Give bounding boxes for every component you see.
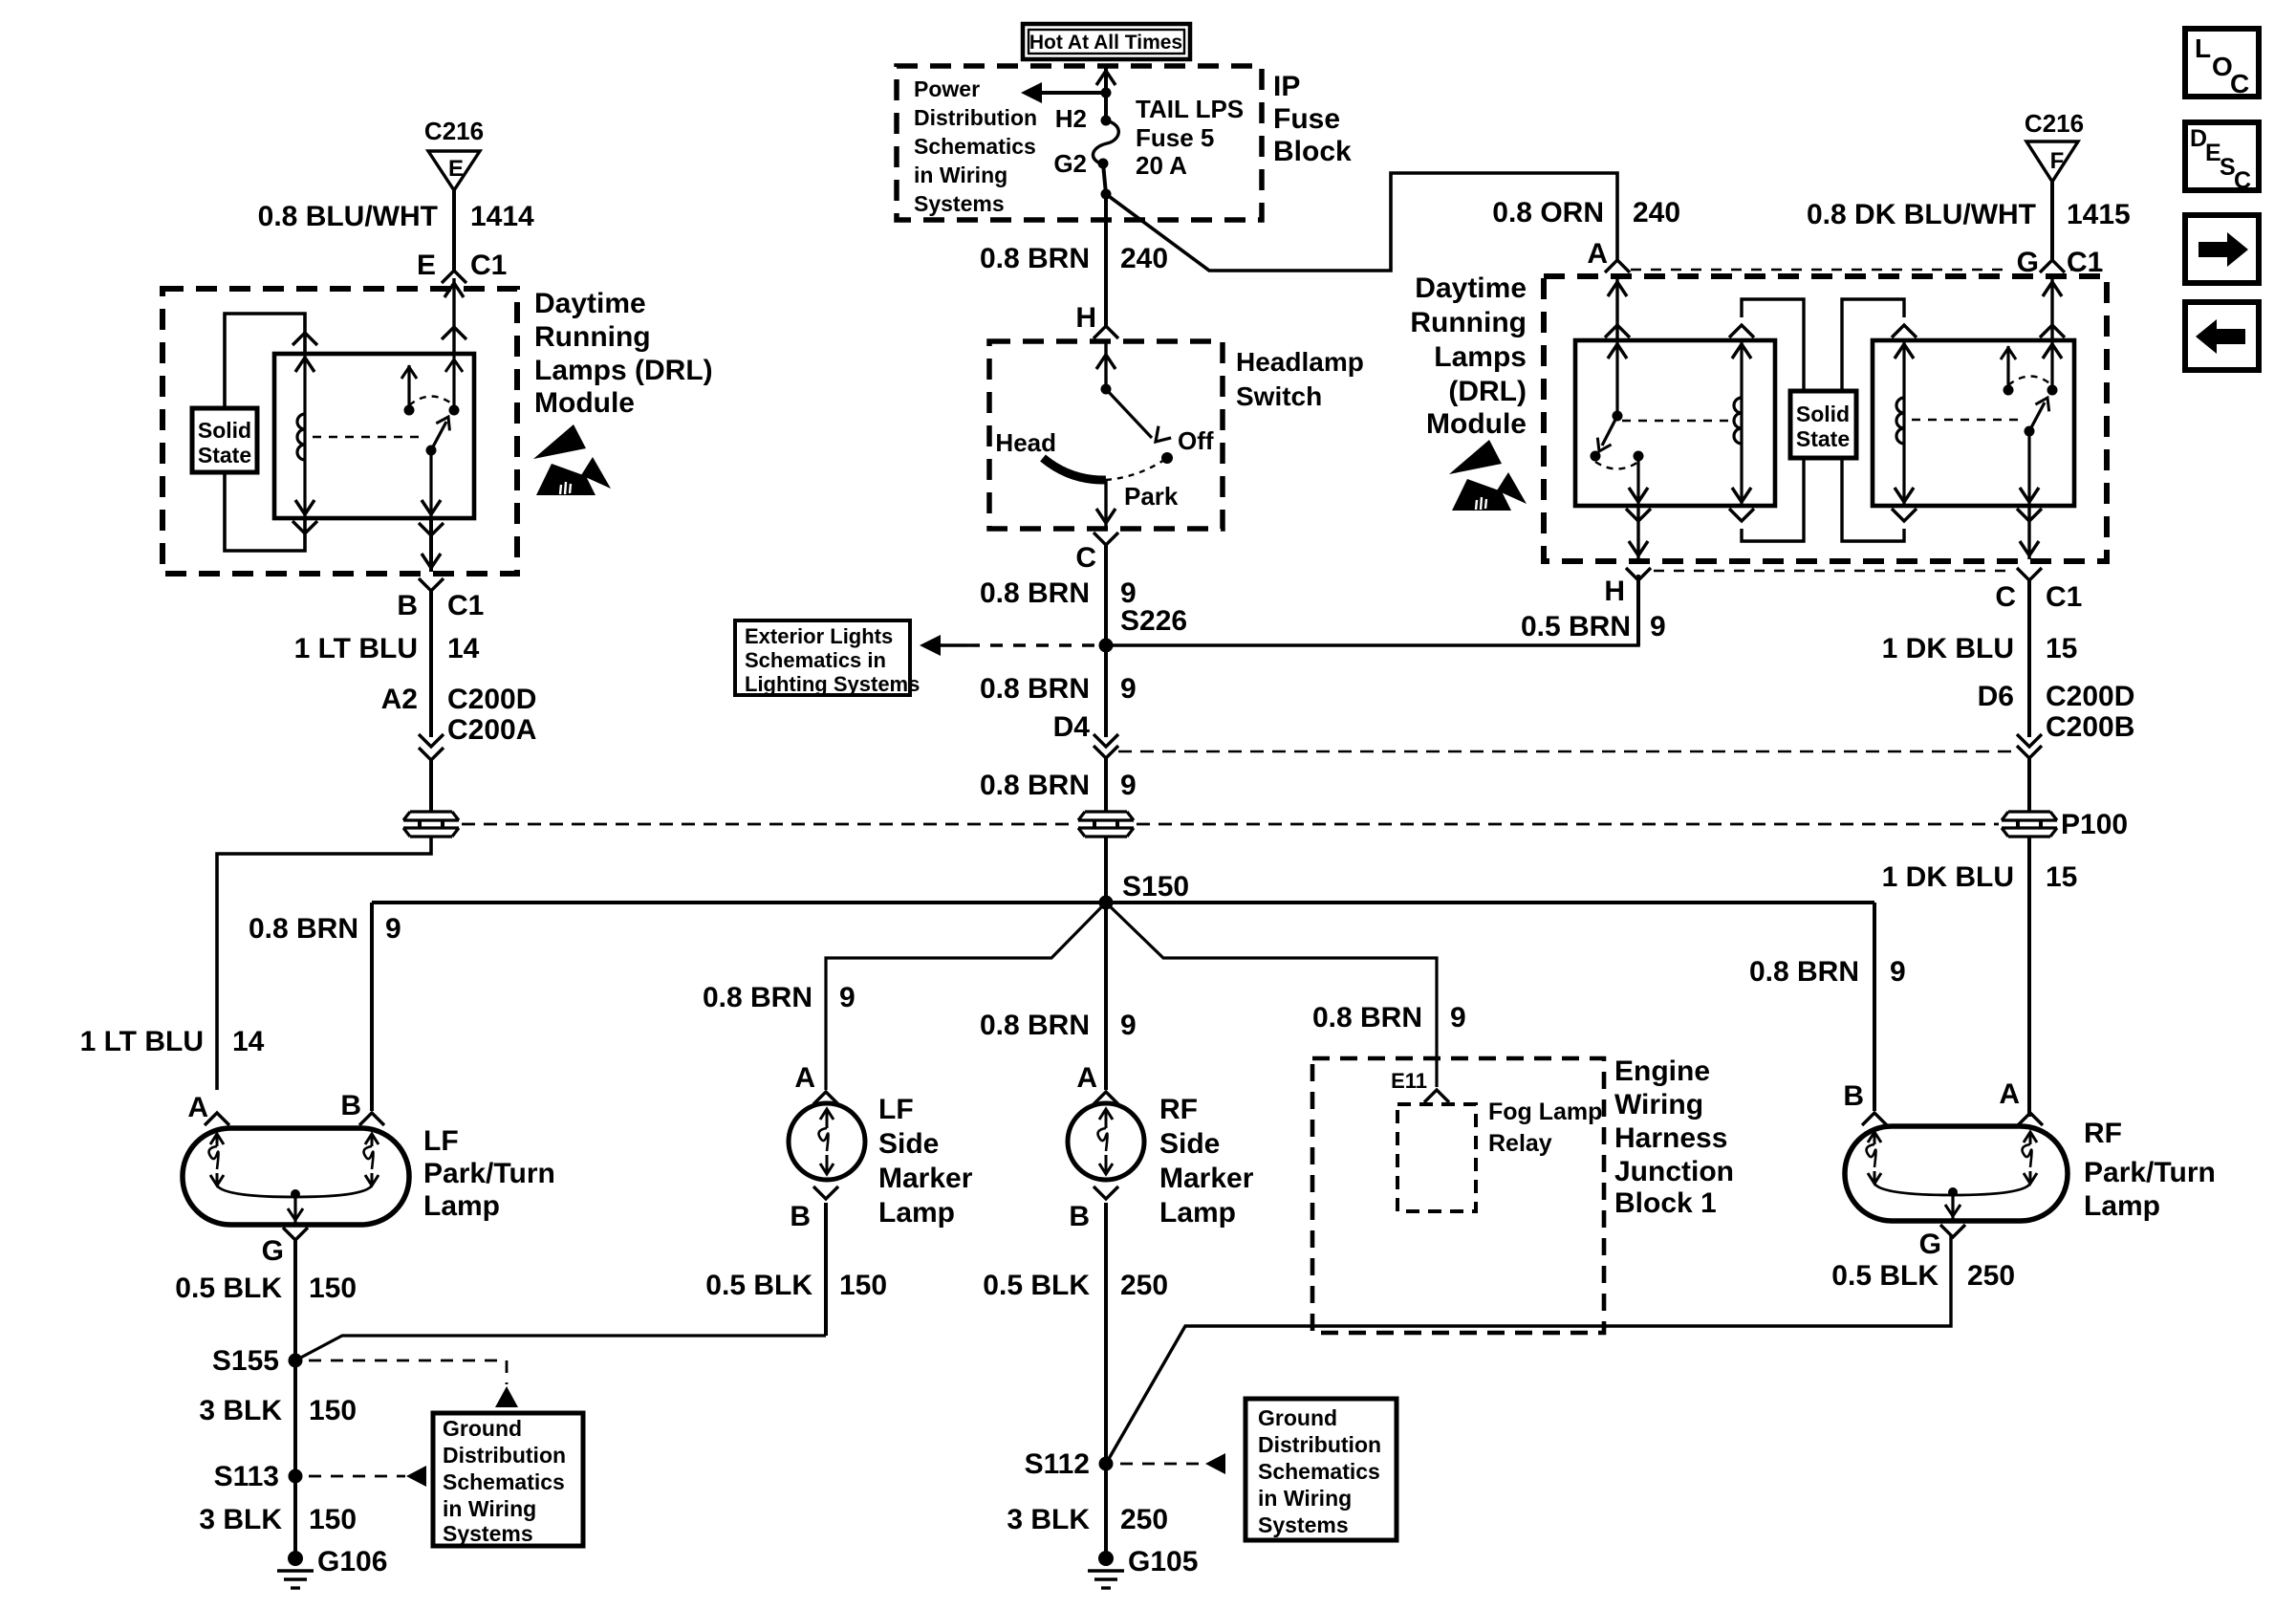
svg-text:D6: D6 (1978, 681, 2014, 712)
svg-text:Park/Turn: Park/Turn (2084, 1157, 2216, 1188)
svg-text:14: 14 (447, 633, 480, 664)
svg-text:Off: Off (1178, 426, 1214, 455)
svg-text:C: C (1075, 542, 1096, 574)
svg-text:B: B (1843, 1080, 1864, 1112)
svg-text:Fuse: Fuse (1273, 103, 1340, 135)
svg-text:Module: Module (534, 387, 635, 419)
svg-text:Lamp: Lamp (423, 1190, 500, 1222)
svg-text:Ground: Ground (443, 1416, 522, 1441)
svg-text:Systems: Systems (1258, 1512, 1349, 1537)
svg-text:0.8 ORN: 0.8 ORN (1492, 197, 1604, 228)
svg-text:State: State (198, 443, 251, 468)
svg-text:Headlamp: Headlamp (1236, 347, 1364, 377)
svg-text:in Wiring: in Wiring (1258, 1486, 1352, 1511)
svg-text:Power: Power (914, 76, 980, 101)
svg-text:S226: S226 (1120, 605, 1187, 637)
svg-text:Module: Module (1426, 408, 1527, 440)
svg-text:Side: Side (878, 1128, 939, 1160)
svg-text:State: State (1796, 426, 1850, 451)
svg-text:C200A: C200A (447, 714, 536, 746)
svg-text:Marker: Marker (1159, 1163, 1254, 1194)
svg-text:B: B (340, 1090, 361, 1121)
svg-text:Park/Turn: Park/Turn (423, 1158, 555, 1189)
svg-text:E: E (417, 250, 436, 281)
svg-text:Marker: Marker (878, 1163, 973, 1194)
svg-text:1 LT BLU: 1 LT BLU (294, 633, 418, 664)
svg-text:240: 240 (1633, 197, 1680, 228)
svg-text:G: G (1919, 1229, 1941, 1260)
svg-text:Junction: Junction (1614, 1156, 1734, 1187)
svg-text:9: 9 (839, 982, 856, 1013)
svg-text:1415: 1415 (2067, 199, 2131, 230)
svg-text:9: 9 (1120, 1010, 1137, 1041)
svg-text:Fuse 5: Fuse 5 (1136, 123, 1214, 152)
svg-text:Park: Park (1124, 482, 1179, 511)
svg-text:250: 250 (1967, 1260, 2015, 1292)
svg-text:G: G (262, 1235, 284, 1267)
svg-text:in Wiring: in Wiring (443, 1496, 536, 1521)
svg-text:Lamps: Lamps (1434, 341, 1527, 373)
svg-text:P100: P100 (2061, 809, 2128, 840)
svg-text:LF: LF (878, 1094, 914, 1125)
svg-text:0.5 BRN: 0.5 BRN (1521, 611, 1631, 642)
svg-text:0.5 BLK: 0.5 BLK (705, 1270, 812, 1301)
svg-text:Lamp: Lamp (1159, 1197, 1236, 1229)
svg-text:G2: G2 (1053, 149, 1087, 178)
svg-text:Head: Head (995, 428, 1056, 457)
svg-text:3 BLK: 3 BLK (199, 1395, 282, 1426)
svg-text:9: 9 (1120, 673, 1137, 705)
svg-text:0.8 BRN: 0.8 BRN (980, 673, 1090, 705)
svg-text:L: L (2195, 33, 2211, 63)
svg-text:14: 14 (232, 1026, 265, 1057)
svg-text:G105: G105 (1128, 1546, 1198, 1577)
svg-text:15: 15 (2046, 633, 2077, 664)
svg-text:TAIL LPS: TAIL LPS (1136, 95, 1244, 123)
svg-text:A: A (187, 1092, 208, 1123)
svg-text:1 DK BLU: 1 DK BLU (1882, 861, 2014, 893)
svg-text:LF: LF (423, 1125, 459, 1157)
svg-text:250: 250 (1120, 1270, 1168, 1301)
svg-text:0.8 BRN: 0.8 BRN (980, 770, 1090, 801)
svg-text:H: H (1604, 576, 1625, 607)
svg-text:Harness: Harness (1614, 1122, 1727, 1154)
svg-text:9: 9 (1650, 611, 1666, 642)
svg-text:F: F (2050, 148, 2065, 174)
svg-text:C: C (1995, 581, 2016, 613)
svg-text:9: 9 (1450, 1002, 1466, 1033)
svg-text:Systems: Systems (443, 1521, 533, 1546)
svg-text:Running: Running (1410, 307, 1527, 338)
svg-text:0.8 BRN: 0.8 BRN (980, 577, 1090, 609)
svg-text:Distribution: Distribution (443, 1443, 566, 1468)
svg-text:250: 250 (1120, 1504, 1168, 1535)
svg-text:0.8 BRN: 0.8 BRN (249, 913, 358, 945)
svg-text:150: 150 (309, 1395, 357, 1426)
svg-text:Solid: Solid (198, 418, 251, 443)
svg-text:Engine: Engine (1614, 1055, 1710, 1087)
svg-text:C1: C1 (447, 590, 484, 621)
svg-text:S113: S113 (214, 1461, 279, 1492)
svg-text:150: 150 (309, 1273, 357, 1304)
svg-text:C216: C216 (424, 117, 484, 145)
svg-text:C216: C216 (2025, 109, 2084, 138)
svg-text:Schematics in: Schematics in (745, 648, 886, 672)
svg-text:3 BLK: 3 BLK (199, 1504, 282, 1535)
svg-text:1 DK BLU: 1 DK BLU (1882, 633, 2014, 664)
svg-text:H2: H2 (1055, 104, 1087, 133)
svg-text:Side: Side (1159, 1128, 1220, 1160)
svg-text:0.8 BRN: 0.8 BRN (703, 982, 812, 1013)
svg-text:Solid: Solid (1796, 402, 1850, 426)
svg-text:Hot At All Times: Hot At All Times (1029, 32, 1182, 54)
svg-text:Switch: Switch (1236, 381, 1322, 411)
svg-text:0.5 BLK: 0.5 BLK (175, 1273, 282, 1304)
svg-text:Lighting Systems: Lighting Systems (745, 672, 920, 696)
svg-text:Fog Lamp: Fog Lamp (1488, 1099, 1602, 1125)
svg-text:1 LT BLU: 1 LT BLU (80, 1026, 204, 1057)
svg-text:C1: C1 (2046, 581, 2082, 613)
svg-text:0.8 BRN: 0.8 BRN (1312, 1002, 1422, 1033)
svg-text:Daytime: Daytime (534, 288, 646, 319)
svg-text:C1: C1 (470, 250, 507, 281)
svg-text:A: A (1587, 238, 1608, 270)
svg-text:S155: S155 (212, 1345, 279, 1377)
svg-text:Lamp: Lamp (2084, 1190, 2160, 1222)
svg-text:0.8 BRN: 0.8 BRN (980, 243, 1090, 274)
svg-text:9: 9 (1120, 770, 1137, 801)
svg-text:B: B (397, 590, 418, 621)
svg-text:Relay: Relay (1488, 1130, 1552, 1157)
svg-text:E11: E11 (1391, 1069, 1427, 1093)
svg-text:15: 15 (2046, 861, 2077, 893)
svg-text:A2: A2 (381, 684, 418, 715)
svg-text:A: A (1999, 1078, 2020, 1110)
svg-text:240: 240 (1120, 243, 1168, 274)
svg-text:0.8 BLU/WHT: 0.8 BLU/WHT (258, 201, 438, 232)
svg-text:in Wiring: in Wiring (914, 163, 1007, 187)
svg-text:0.8 BRN: 0.8 BRN (980, 1010, 1090, 1041)
svg-text:Systems: Systems (914, 191, 1005, 216)
svg-text:Ground: Ground (1258, 1405, 1337, 1430)
svg-text:150: 150 (839, 1270, 887, 1301)
svg-text:S112: S112 (1025, 1448, 1090, 1480)
svg-text:B: B (790, 1201, 811, 1232)
svg-text:Schematics: Schematics (1258, 1459, 1380, 1484)
svg-text:RF: RF (1159, 1094, 1198, 1125)
svg-text:C: C (2234, 167, 2251, 194)
svg-text:Distribution: Distribution (914, 105, 1037, 130)
svg-text:D4: D4 (1053, 711, 1091, 743)
svg-text:9: 9 (1890, 956, 1906, 988)
svg-text:Block: Block (1273, 136, 1352, 167)
svg-text:3 BLK: 3 BLK (1007, 1504, 1090, 1535)
svg-text:C200D: C200D (2046, 681, 2134, 712)
svg-text:0.8 DK BLU/WHT: 0.8 DK BLU/WHT (1807, 199, 2036, 230)
svg-text:IP: IP (1273, 71, 1300, 102)
svg-text:1414: 1414 (470, 201, 534, 232)
svg-text:E: E (448, 156, 464, 182)
svg-text:Distribution: Distribution (1258, 1432, 1381, 1457)
svg-text:Block 1: Block 1 (1614, 1187, 1717, 1219)
svg-text:Lamps (DRL): Lamps (DRL) (534, 355, 713, 386)
svg-text:0.8 BRN: 0.8 BRN (1749, 956, 1859, 988)
svg-text:C: C (2230, 69, 2249, 98)
svg-text:Daytime: Daytime (1415, 272, 1527, 304)
svg-text:20 A: 20 A (1136, 151, 1187, 180)
svg-text:C200D: C200D (447, 684, 536, 715)
svg-text:A: A (1076, 1062, 1097, 1094)
svg-text:A: A (794, 1062, 815, 1094)
svg-text:S150: S150 (1122, 871, 1189, 903)
svg-text:0.5 BLK: 0.5 BLK (1831, 1260, 1939, 1292)
svg-text:G106: G106 (317, 1546, 387, 1577)
svg-text:Exterior Lights: Exterior Lights (745, 624, 893, 648)
svg-text:Schematics: Schematics (443, 1469, 565, 1494)
svg-text:0.5 BLK: 0.5 BLK (983, 1270, 1090, 1301)
svg-text:C200B: C200B (2046, 711, 2134, 743)
svg-text:RF: RF (2084, 1118, 2122, 1149)
svg-text:Lamp: Lamp (878, 1197, 955, 1229)
svg-text:Running: Running (534, 321, 651, 353)
svg-text:Wiring: Wiring (1614, 1089, 1703, 1120)
svg-text:150: 150 (309, 1504, 357, 1535)
svg-text:B: B (1069, 1201, 1090, 1232)
svg-text:(DRL): (DRL) (1448, 376, 1527, 407)
svg-text:H: H (1075, 302, 1096, 334)
svg-text:Schematics: Schematics (914, 134, 1036, 159)
svg-text:9: 9 (385, 913, 401, 945)
